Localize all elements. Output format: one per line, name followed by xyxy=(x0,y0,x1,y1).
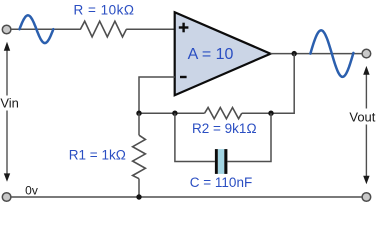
svg-text:R = 10kΩ: R = 10kΩ xyxy=(74,3,135,18)
capacitor C dielectric fill xyxy=(218,149,225,174)
wire: resistor R to op-amp non-inverting input xyxy=(126,28,175,30)
node: R1 to 0v rail dot xyxy=(136,194,141,199)
wire: input signal wire to resistor R xyxy=(11,28,81,30)
wire: rail right of R2 up to output junction xyxy=(242,54,294,114)
svg-text:Vin: Vin xyxy=(0,96,19,111)
label: A = 10 gain xyxy=(188,46,234,63)
wire: op-amp inverting input, left then down xyxy=(139,77,175,113)
svg-text:0v: 0v xyxy=(25,183,38,197)
wire: feedback rail from inverting node to output, with corner up xyxy=(139,112,205,114)
wire: R1 top lead xyxy=(138,113,140,135)
resistor R1 zigzag body xyxy=(133,135,146,179)
node: capacitor branch right dot xyxy=(268,111,273,116)
Vout arrow (double-headed) xyxy=(363,66,369,184)
wire: capacitor branch left drop xyxy=(175,113,215,161)
label: R1 = 1kΩ xyxy=(69,148,126,163)
svg-text:C = 110nF: C = 110nF xyxy=(190,175,252,190)
wire: capacitor branch right drop xyxy=(228,113,272,161)
label: Vin xyxy=(0,96,19,111)
svg-text:A = 10: A = 10 xyxy=(188,46,234,63)
label: C = 110nF xyxy=(190,175,252,190)
svg-text:R2 = 9k1Ω: R2 = 9k1Ω xyxy=(192,121,257,136)
op-amp + input symbol xyxy=(179,23,189,33)
wire: op-amp output to terminal xyxy=(271,53,363,55)
capacitor C left plate xyxy=(215,149,218,174)
node: capacitor branch left dot xyxy=(172,111,177,116)
resistor R1 = 10k zigzag body xyxy=(80,21,126,37)
output sine wave xyxy=(310,30,353,77)
label: Vout xyxy=(349,110,375,125)
op-amp U1 triangle xyxy=(175,12,271,95)
terminal: input - (bottom-left) xyxy=(2,193,11,202)
capacitor C right plate xyxy=(224,149,227,174)
op-amp - input symbol xyxy=(180,76,187,78)
terminal: output - (bottom-right) xyxy=(362,193,371,202)
resistor R2 zigzag body xyxy=(205,108,242,119)
wire: 0v bottom rail xyxy=(11,196,363,198)
svg-text:Vout: Vout xyxy=(349,110,375,125)
label: R2 = 9k1Ω xyxy=(192,121,257,136)
svg-text:R1 = 1kΩ: R1 = 1kΩ xyxy=(69,148,126,163)
terminal: output + (right) xyxy=(362,49,371,58)
wire: R1 bottom lead xyxy=(138,179,140,197)
input sine wave xyxy=(20,15,54,43)
node: output junction dot xyxy=(292,51,297,56)
Vin arrow (double-headed, up) xyxy=(4,42,10,182)
label: 0v xyxy=(25,183,38,197)
terminal: input + (top-left) xyxy=(2,25,11,34)
node: feedback left dot (R1 / inverting) xyxy=(136,111,141,116)
label: R = 10kΩ xyxy=(74,3,135,18)
